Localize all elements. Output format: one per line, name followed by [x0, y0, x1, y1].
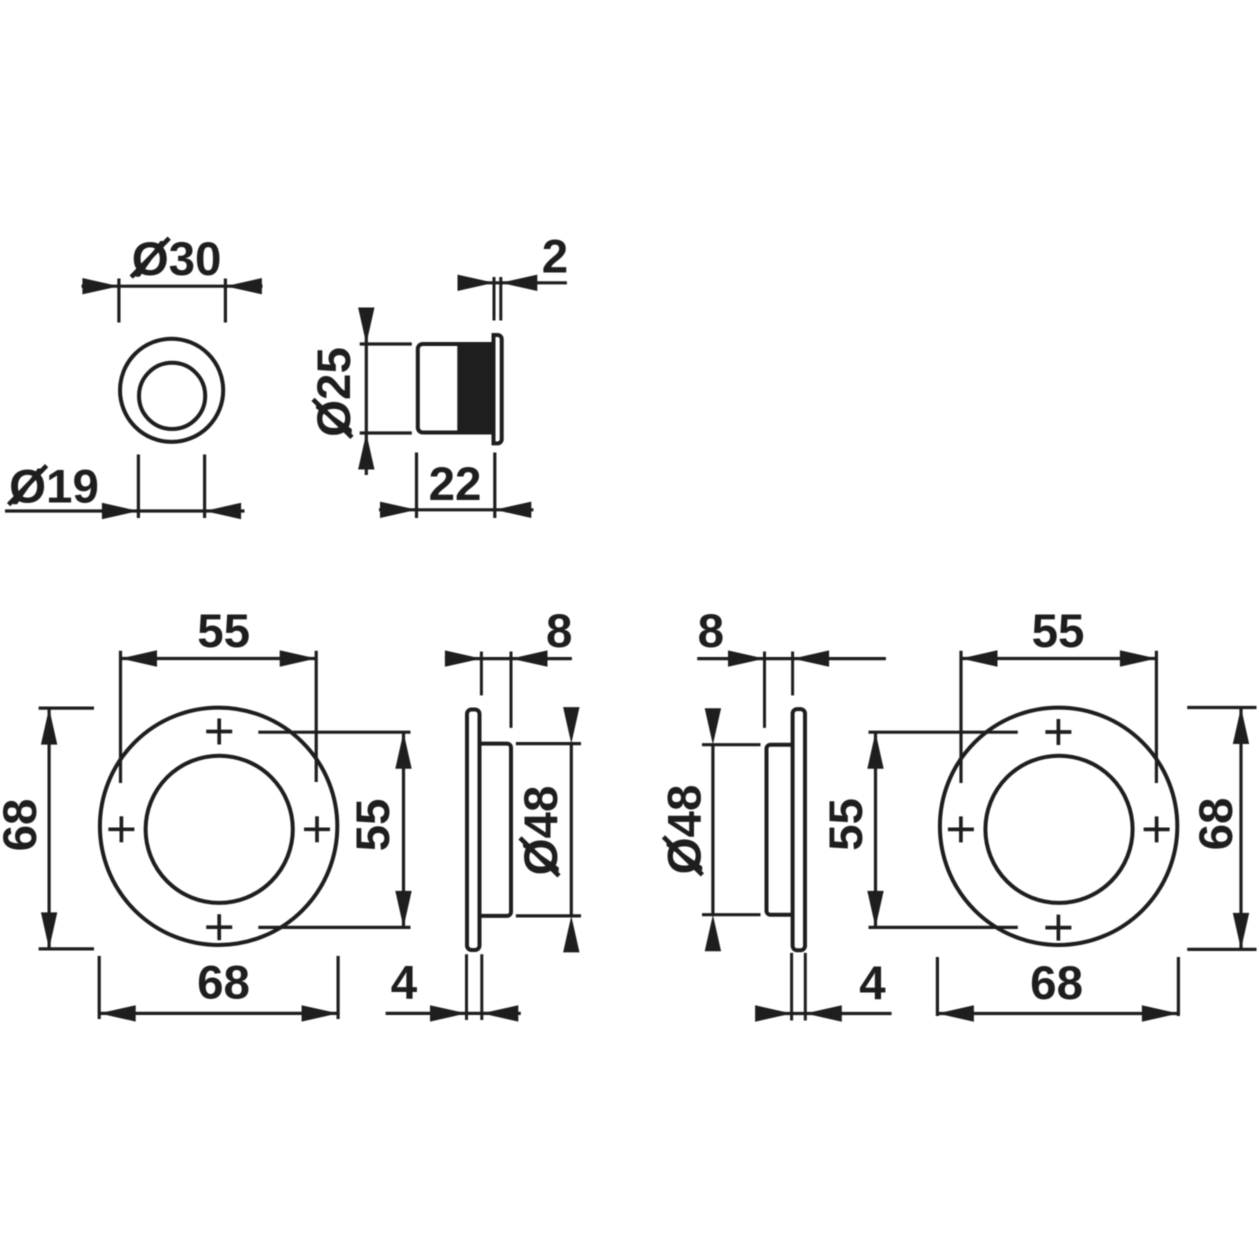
- svg-text:55: 55: [1032, 605, 1085, 658]
- svg-text:55: 55: [347, 799, 400, 852]
- svg-text:55: 55: [820, 798, 873, 851]
- svg-text:68: 68: [197, 957, 250, 1010]
- svg-text:8: 8: [546, 605, 572, 658]
- svg-text:55: 55: [197, 605, 250, 658]
- svg-text:8: 8: [698, 605, 724, 658]
- svg-text:4: 4: [391, 957, 418, 1010]
- svg-text:4: 4: [859, 957, 886, 1010]
- svg-text:68: 68: [1030, 957, 1083, 1010]
- svg-text:2: 2: [542, 231, 568, 284]
- svg-text:68: 68: [1190, 798, 1243, 851]
- svg-text:68: 68: [0, 799, 47, 852]
- svg-text:22: 22: [429, 458, 482, 511]
